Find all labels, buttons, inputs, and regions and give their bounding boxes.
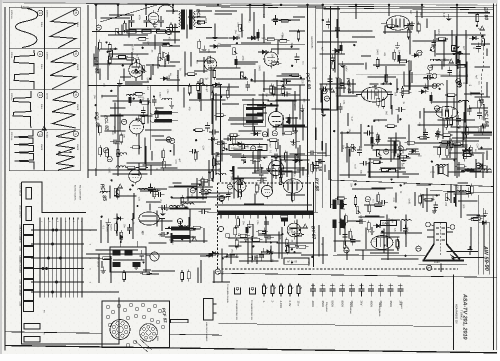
wire: [113, 100, 151, 102]
waveform trace cell 5 (pulse): [13, 91, 31, 128]
wire: [468, 12, 490, 14]
wire: [486, 82, 488, 97]
capacitor C25: [456, 59, 461, 69]
wire: [196, 178, 198, 199]
scanner gray band left: [0, 0, 2, 356]
waveform trace cell 7 (pulse train): [14, 130, 34, 170]
capacitor C65: [314, 162, 319, 172]
coil L9: [170, 206, 180, 208]
wire: [456, 138, 458, 151]
wire: [256, 255, 258, 264]
wire: [251, 238, 253, 263]
wire: [208, 160, 210, 186]
coil L6: [430, 59, 440, 61]
resistor R46: [255, 183, 258, 195]
wire: [170, 45, 180, 47]
resistor R16: [98, 40, 101, 52]
diode D9: [453, 51, 463, 55]
wire: [409, 71, 411, 91]
wire: [275, 99, 310, 101]
tube V1 ECL80: [130, 118, 144, 137]
resistor R54: [277, 39, 289, 42]
wire: [132, 213, 134, 239]
resistor R15: [120, 133, 123, 145]
resistor R40: [274, 86, 286, 89]
resistor R131: [108, 42, 111, 54]
capacitor C57: [148, 184, 153, 194]
waveform arrow annotation: [58, 151, 72, 153]
resistor R35: [226, 88, 229, 100]
test point circle: [365, 197, 370, 202]
wire: [411, 72, 413, 83]
capacitor C23: [456, 115, 461, 125]
resistor R13: [162, 148, 165, 160]
svg-text:190V: 190V: [131, 46, 134, 52]
wire: [408, 60, 410, 94]
node junction: [390, 27, 392, 29]
wire: [475, 66, 491, 68]
resistor R1: [130, 146, 142, 149]
capacitor C24: [339, 79, 344, 89]
wire: [291, 171, 293, 202]
wire: [252, 152, 254, 164]
wire: [421, 194, 440, 196]
wire rail mid horizontal B: [88, 169, 220, 171]
test point circle TP4: [431, 47, 436, 52]
potentiometer P15: [445, 194, 450, 201]
resistor R134: [469, 218, 481, 221]
resistor R31: [239, 187, 242, 199]
tube V8 triode: [148, 10, 159, 26]
resistor R84: [478, 98, 481, 110]
electrolytic capacitor CE7: [371, 134, 374, 146]
wire: [168, 186, 193, 188]
tube V6 PY88: [261, 183, 272, 199]
wire: [371, 187, 393, 189]
wire: [465, 91, 467, 110]
node junction: [397, 25, 399, 27]
node junction: [476, 25, 478, 27]
wire: [234, 149, 244, 151]
svg-text:Polyesteri: Polyesteri: [325, 302, 328, 312]
wire: [99, 68, 101, 80]
wire: [294, 91, 296, 111]
wire: [254, 170, 292, 172]
resistor R58: [482, 36, 485, 48]
wire: [211, 140, 213, 155]
wire: [209, 45, 231, 47]
coil L12: [180, 226, 190, 228]
ground: [117, 80, 122, 87]
capacitor C16: [224, 136, 234, 141]
wire: [408, 124, 410, 145]
capacitor C59: [154, 192, 164, 197]
wire: [165, 31, 180, 33]
wire: [337, 254, 359, 256]
wire: [478, 148, 492, 150]
wire: [337, 95, 358, 97]
capacitor C49: [378, 200, 388, 205]
wire: [237, 167, 263, 169]
cable arc: [158, 5, 174, 12]
ground: [169, 101, 174, 108]
test point circle: [435, 106, 440, 111]
potentiometer P2: [116, 28, 121, 35]
capacitor C1: [141, 106, 146, 116]
resistor R101: [286, 243, 289, 255]
wire: [247, 241, 249, 255]
diode D1: [160, 77, 170, 81]
wire: [434, 30, 436, 56]
node junction: [171, 196, 173, 198]
wire: [204, 192, 232, 194]
svg-text:350V: 350V: [389, 301, 393, 308]
deflection yoke L: [330, 200, 347, 210]
svg-text:150V: 150V: [288, 180, 294, 183]
wire: [470, 227, 472, 250]
resistor R9: [108, 53, 111, 65]
control box 1/Maa Ohjaus: [229, 145, 267, 151]
wire: [125, 83, 142, 85]
wire: [352, 188, 386, 190]
svg-text:OA81: OA81: [258, 65, 261, 72]
resistor R26: [269, 62, 281, 65]
switch matrix vertical wires: [40, 220, 82, 298]
output transformer T4 leads: [165, 229, 196, 238]
coil L19: [481, 169, 491, 171]
resistor R39: [215, 142, 227, 145]
capacitor C2: [152, 96, 157, 106]
switch matrix horizontal wires: [31, 230, 119, 292]
wire: [232, 166, 234, 180]
wire: [279, 145, 281, 175]
waveform trace cell 2 (sawtooth): [50, 9, 77, 49]
electrolytic capacitor CE10: [246, 224, 249, 236]
wire: [289, 167, 300, 169]
resistor R2: [170, 22, 173, 34]
capacitor C56: [158, 205, 168, 210]
resistor R76: [450, 115, 453, 127]
wire: [348, 220, 363, 222]
wire: [293, 16, 305, 18]
legend: capacitor symbol 3: [329, 284, 335, 297]
wire: [164, 59, 166, 68]
test point circle: [166, 137, 171, 142]
node junction: [244, 161, 246, 163]
svg-text:15625: 15625: [76, 144, 79, 151]
wire: [213, 271, 215, 283]
waveform trace cell 6 (zigzag): [52, 91, 77, 128]
node junction: [482, 35, 484, 37]
node junction: [322, 19, 324, 21]
svg-text:N (fp): N (fp): [46, 132, 49, 138]
ground: [164, 204, 169, 211]
electrolytic capacitor CE8: [430, 92, 433, 104]
wire: [203, 228, 205, 243]
wire: [110, 107, 126, 109]
test point circle: [428, 65, 433, 70]
wire: [254, 69, 256, 83]
node junction: [114, 48, 116, 50]
test point circle: [456, 79, 461, 84]
PCF82 module box: [102, 301, 170, 348]
legend: capacitor symbol 1: [310, 284, 316, 297]
electrolytic capacitor CE3: [288, 114, 291, 126]
resistor R48: [297, 30, 300, 42]
node junction: [226, 148, 228, 150]
waveform trace cell 1 (video): [15, 9, 37, 48]
waveform chart panel frame: [9, 7, 80, 171]
wire: [387, 247, 389, 260]
ground: [432, 207, 437, 214]
warning triangle 4: [330, 88, 334, 92]
bus line bottom-left: [5, 332, 102, 334]
ground: [446, 14, 451, 21]
ground: [427, 70, 432, 77]
resistor R117: [181, 270, 184, 282]
svg-text:TV ALUEEN OHJAIN: TV ALUEEN OHJAIN: [226, 284, 229, 303]
wire: [483, 104, 485, 121]
wire: [397, 154, 399, 163]
resistor R91: [419, 194, 422, 206]
svg-text:190V: 190V: [268, 142, 271, 148]
resistor R-row-3: [157, 30, 166, 33]
wire: [409, 24, 411, 54]
vertical bus wires: [308, 6, 339, 212]
svg-text:ULKOP ANT: ULKOP ANT: [19, 285, 22, 297]
node junction: [384, 244, 386, 246]
resistor R11: [155, 108, 158, 120]
wire: [253, 12, 255, 40]
capacitor C60: [158, 232, 168, 237]
svg-text:15625: 15625: [76, 64, 79, 71]
wire: [325, 143, 327, 157]
coil L2: [162, 98, 172, 100]
wire: [460, 185, 462, 217]
capacitor C6: [295, 53, 300, 63]
wire: [364, 144, 398, 146]
wire: [228, 119, 264, 121]
wire: [380, 167, 405, 169]
wire: [360, 130, 362, 144]
wire: [390, 93, 392, 108]
wire: [318, 225, 320, 256]
capacitor C69: [281, 92, 291, 97]
wire: [365, 62, 367, 69]
svg-text:6.3V: 6.3V: [288, 301, 292, 307]
top horizontal bus wire 2: [206, 7, 493, 10]
node junction: [261, 167, 263, 169]
PCF82 module small pads: [106, 303, 165, 347]
wire: [368, 176, 409, 178]
diode D5: [251, 132, 261, 136]
capacitor C8: [280, 168, 285, 178]
node junction: [300, 77, 302, 79]
resistor R124: [279, 165, 282, 177]
wire: [181, 197, 201, 199]
svg-text:DY 87: DY 87: [310, 226, 317, 240]
wire: [263, 24, 265, 43]
wire: [152, 64, 154, 75]
wire: [177, 70, 179, 92]
wire: [458, 51, 460, 63]
tube V16 PL36 output: [269, 157, 284, 179]
wire: [280, 159, 305, 161]
wire: [471, 92, 481, 94]
wire: [174, 185, 197, 187]
svg-text:300 A ss: 300 A ss: [10, 132, 13, 141]
wire: [446, 80, 448, 112]
node junction: [458, 127, 460, 129]
svg-text:AANI: AANI: [19, 302, 22, 307]
wire: [123, 69, 125, 82]
resistor R60: [385, 125, 397, 128]
PCF82 socket big circle B: [140, 324, 158, 342]
wire: [116, 214, 118, 236]
svg-text:190V: 190V: [437, 29, 440, 35]
resistor R66: [476, 12, 479, 24]
ground: [230, 167, 235, 174]
node junction: [172, 239, 174, 241]
PCF82 module pointer lines: [135, 339, 152, 352]
wire: [352, 79, 354, 94]
resistor R138: [464, 149, 467, 161]
node junction: [430, 49, 432, 51]
svg-text:190V: 190V: [158, 92, 161, 98]
wire: [189, 99, 225, 101]
legend: capacitor symbol 2: [320, 284, 326, 297]
electrolytic capacitor CE11: [129, 94, 132, 106]
wire: [436, 53, 470, 55]
node junction: [439, 88, 441, 90]
wire: [408, 153, 420, 155]
node junction: [122, 65, 124, 67]
legend left caption: [221, 271, 229, 303]
potentiometer P4: [142, 66, 147, 73]
diode D19: [206, 253, 216, 257]
test point circle: [417, 50, 422, 55]
wire: [320, 53, 345, 55]
waveform trace cell 4 (ramp): [50, 51, 77, 90]
resistor R79: [393, 50, 396, 62]
svg-text:190V: 190V: [406, 227, 409, 233]
resistor R10: [124, 57, 136, 60]
wire: [461, 132, 492, 134]
connector panel outline: [22, 182, 87, 213]
coil L14: [346, 147, 356, 149]
node junction: [168, 227, 170, 229]
IF transformer T3: [244, 104, 266, 134]
diode D15: [373, 224, 383, 228]
coil L16: [456, 190, 466, 192]
node junction: [132, 219, 134, 221]
svg-text:C34: C34: [430, 171, 435, 174]
node junction: [373, 120, 375, 122]
diode D4: [212, 83, 222, 87]
wire rail left vert 2: [95, 8, 97, 170]
wire: [334, 48, 336, 72]
wire: [232, 156, 268, 158]
coil L17: [458, 100, 468, 102]
wire: [441, 61, 443, 69]
resistor R65: [376, 57, 379, 69]
wire: [329, 77, 331, 92]
capacitor C50: [249, 255, 259, 260]
wire: [141, 69, 143, 80]
node junction: [454, 159, 456, 161]
wire: [388, 219, 390, 239]
coil L4: [126, 94, 136, 96]
node junction: [153, 96, 155, 98]
dashed enclosure bottom edge: [218, 268, 459, 270]
wire: [475, 159, 477, 178]
wire: [437, 164, 439, 175]
wire: [131, 52, 133, 66]
capacitor C30: [326, 18, 331, 28]
wire: [486, 49, 488, 56]
wire: [427, 80, 429, 90]
diode D10: [469, 36, 479, 40]
wire: [364, 204, 381, 206]
test point circle: [177, 219, 182, 224]
wire: [133, 201, 135, 219]
wire: [231, 123, 258, 125]
node junction: [431, 161, 433, 163]
svg-text:1M: 1M: [290, 42, 293, 45]
resistor R120: [123, 270, 126, 282]
wire: [169, 208, 200, 210]
wire: [174, 24, 176, 44]
wire: [180, 201, 206, 203]
tube V7 DY87: [287, 221, 301, 240]
node junction: [333, 130, 335, 132]
wire: [190, 52, 192, 66]
capacitor C39: [338, 103, 343, 113]
CRT HT rail vertical C: [489, 222, 491, 275]
test point circle: [122, 119, 127, 124]
wire: [233, 179, 235, 198]
test point circle TP3: [225, 233, 229, 237]
wire: [404, 85, 439, 87]
wire: [405, 215, 407, 247]
wire: [458, 162, 460, 176]
test point circle: [324, 96, 329, 101]
legend lower rule: [218, 324, 452, 327]
svg-text:190V: 190V: [115, 143, 121, 146]
resistor R121: [100, 257, 112, 260]
title block separator: [453, 275, 455, 351]
wire: [182, 208, 211, 210]
wire: [397, 115, 399, 123]
wire: [422, 194, 424, 208]
tube V10 EF80 (horizontal envelope): [381, 16, 415, 30]
wire rail mid horizontal A: [88, 85, 213, 87]
potentiometer P16: [343, 241, 348, 248]
svg-text:1-: 1-: [262, 301, 266, 304]
wire: [151, 270, 175, 272]
ground: [178, 221, 183, 228]
node junction: [368, 125, 370, 127]
resistor R105: [238, 234, 250, 237]
wire: [346, 251, 348, 260]
capacitor C66: [258, 143, 263, 153]
wire: [94, 63, 134, 65]
antenna diagonal wire: [100, 4, 160, 22]
resistor R111: [181, 195, 184, 207]
wire: [251, 80, 292, 82]
wire: [459, 60, 461, 87]
resistor R49: [211, 90, 214, 102]
